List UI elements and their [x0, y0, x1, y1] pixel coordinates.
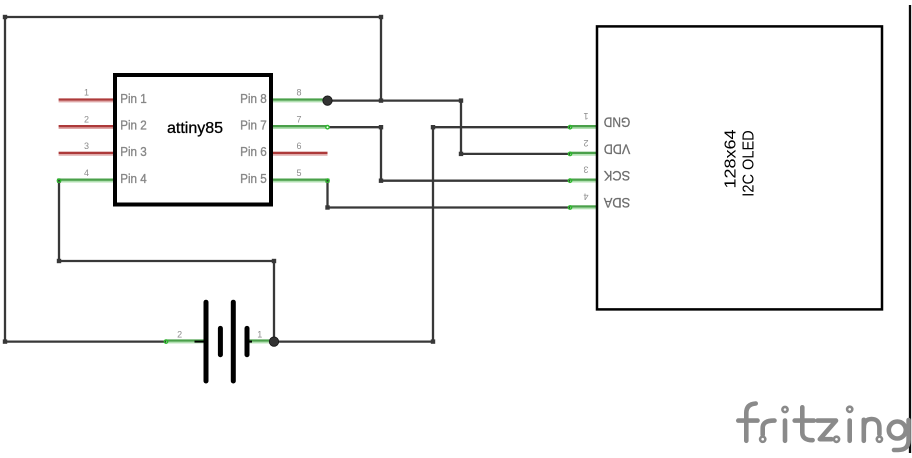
- svg-text:3: 3: [583, 165, 588, 175]
- svg-text:3: 3: [84, 141, 89, 151]
- svg-text:Pin 3: Pin 3: [120, 144, 147, 159]
- svg-text:2: 2: [583, 138, 588, 148]
- svg-text:SCK: SCK: [603, 168, 630, 184]
- svg-text:Pin 6: Pin 6: [240, 144, 267, 159]
- svg-text:8: 8: [296, 88, 301, 98]
- svg-text:2: 2: [84, 114, 89, 124]
- svg-text:1: 1: [84, 88, 89, 98]
- svg-text:1: 1: [583, 111, 588, 121]
- svg-text:4: 4: [84, 168, 89, 178]
- svg-text:attiny85: attiny85: [167, 120, 223, 137]
- svg-text:VDD: VDD: [604, 141, 630, 157]
- svg-text:Pin 5: Pin 5: [240, 171, 267, 186]
- svg-text:128x64: 128x64: [723, 129, 740, 188]
- svg-text:7: 7: [296, 114, 301, 124]
- svg-text:Pin 2: Pin 2: [120, 117, 147, 132]
- svg-text:Pin 4: Pin 4: [120, 171, 147, 186]
- svg-text:5: 5: [296, 168, 301, 178]
- svg-text:6: 6: [296, 141, 301, 151]
- svg-text:2: 2: [177, 330, 182, 340]
- svg-text:Pin 1: Pin 1: [120, 91, 147, 106]
- svg-text:Pin 8: Pin 8: [240, 91, 267, 106]
- svg-text:1: 1: [257, 330, 262, 340]
- svg-text:I2C OLED: I2C OLED: [740, 130, 757, 196]
- svg-text:SDA: SDA: [603, 195, 630, 211]
- svg-text:GND: GND: [604, 115, 630, 131]
- svg-text:4: 4: [583, 192, 588, 202]
- svg-text:Pin 7: Pin 7: [240, 117, 267, 132]
